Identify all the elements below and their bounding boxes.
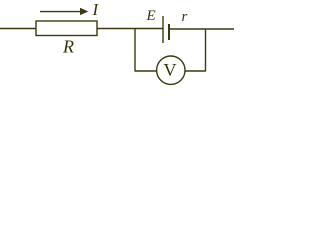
svg-text:r: r — [182, 9, 188, 25]
wire: left lead into resistor — [0, 28, 36, 30]
wire: left vertical of voltmeter branch — [134, 29, 136, 72]
resistor R (box) — [36, 21, 97, 36]
svg-text:E: E — [146, 8, 156, 24]
wire: resistor to battery — [97, 28, 163, 30]
wire: right vertical of voltmeter branch — [205, 29, 207, 72]
wire: bottom left to voltmeter — [135, 70, 157, 72]
wire: voltmeter to bottom right — [185, 70, 206, 72]
wire: battery to right end — [169, 28, 234, 30]
svg-text:V: V — [164, 60, 177, 80]
svg-text:R: R — [62, 37, 74, 57]
svg-text:I: I — [92, 0, 100, 19]
battery E long plate — [162, 16, 164, 43]
voltmeter V (circle) — [157, 56, 185, 84]
current arrow above R — [40, 11, 81, 13]
battery E short plate — [168, 24, 170, 40]
